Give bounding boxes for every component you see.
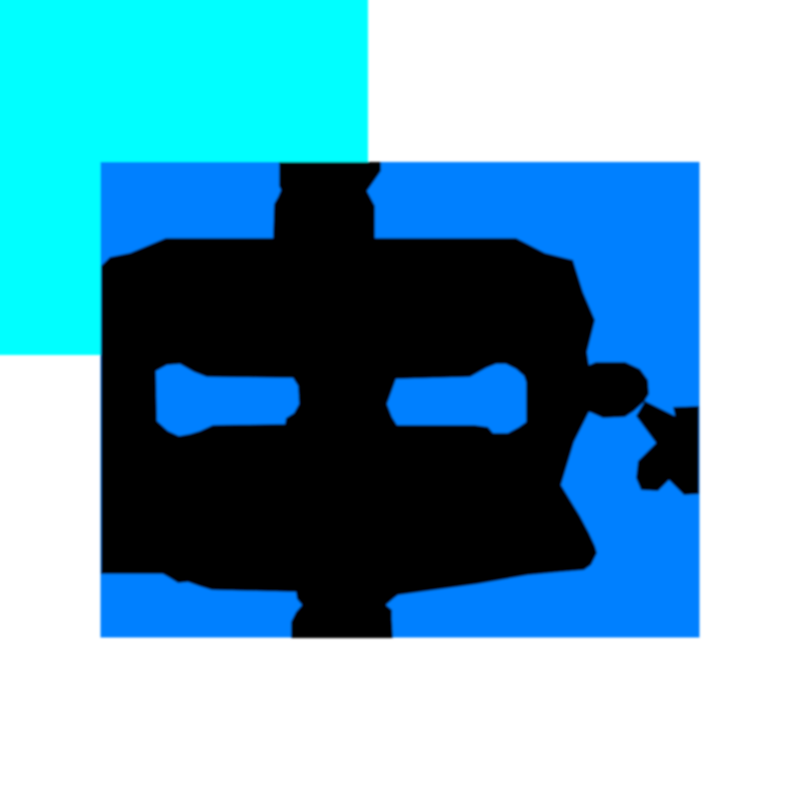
glyph body with right blob bbox=[101, 238, 649, 638]
cursor X cluster (band + right mass + SW arm) bbox=[636, 401, 699, 495]
cyan square bbox=[0, 0, 368, 355]
right eye slot (blue) bbox=[387, 364, 526, 433]
blue square bbox=[101, 162, 700, 638]
left eye slot (blue) bbox=[156, 364, 299, 436]
glyph top bar bbox=[273, 162, 381, 238]
